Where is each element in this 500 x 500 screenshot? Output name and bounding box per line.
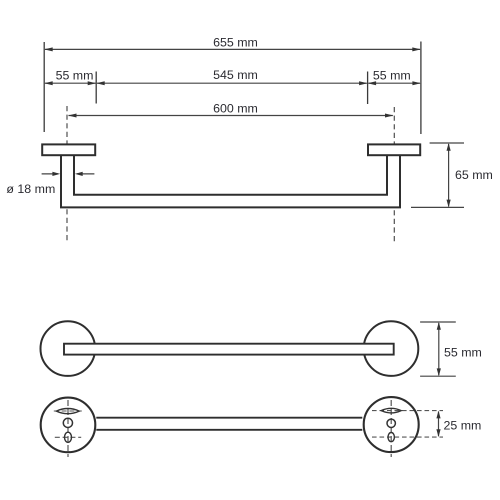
svg-text:65 mm: 65 mm [455,168,493,182]
dia 18 arrows [42,172,95,176]
wall plate right (top view) [368,144,420,155]
svg-text:545 mm: 545 mm [213,68,258,82]
svg-text:ø 18 mm: ø 18 mm [6,182,55,196]
screw ellipse left [65,432,72,442]
dim 600 mm [68,102,394,118]
dashdot through right screw [372,436,443,438]
svg-text:600 mm: 600 mm [213,102,258,116]
dashdot through left screw [55,436,81,438]
dim 55 mm left [44,69,96,86]
circle left (front view) [41,321,96,376]
circle bottom-right [364,397,419,452]
dim 55 mm (front view) [420,322,482,376]
rail U-shape (stems and bar, top view) [61,155,400,207]
svg-text:55 mm: 55 mm [444,345,482,359]
center dashline right post [393,107,395,242]
center dashline bottom-right circle [390,400,392,457]
screw head circle left [63,418,72,427]
dim 55 mm right [368,69,421,86]
extension line right [420,42,422,135]
svg-text:25 mm: 25 mm [444,419,482,433]
center dashline bottom-left circle [67,400,69,457]
svg-text:55 mm: 55 mm [373,69,411,83]
dim 655 mm [44,35,421,51]
wall plate left (top view) [42,144,95,155]
bar (front view) [64,344,394,355]
svg-text:55 mm: 55 mm [56,69,94,83]
screw head circle right [387,419,395,427]
anchor lens left [56,409,79,414]
circle bottom-left [41,398,96,453]
svg-text:655 mm: 655 mm [213,35,258,49]
tick right [367,72,369,105]
dashdot through left anchor [54,410,82,412]
circle right (front view) [364,321,419,376]
anchor lens right [381,408,401,413]
bar (bottom view) [96,417,362,419]
screw ellipse right [388,433,394,442]
dashdot through right anchor [372,410,443,412]
center dashline left post [66,106,68,242]
dim 25 mm [436,411,481,438]
extension line left [43,42,45,132]
dim 545 mm [96,68,367,85]
dim 65 mm [411,143,493,207]
tick left [95,72,97,104]
